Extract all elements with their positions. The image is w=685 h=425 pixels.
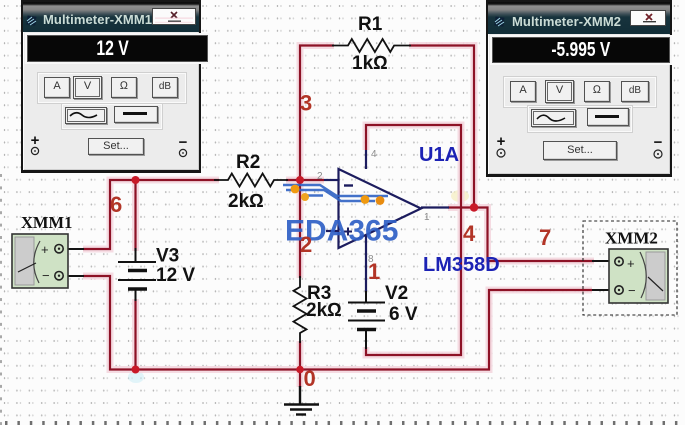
svg-text:6: 6	[110, 192, 122, 217]
svg-text:V2: V2	[385, 283, 408, 304]
svg-text:1: 1	[424, 212, 430, 223]
wire XMM1 minus to ground rail, bottom rail, up to XMM2 minus	[83, 276, 592, 370]
svg-text:2kΩ: 2kΩ	[228, 191, 264, 212]
svg-text:7: 7	[539, 225, 551, 250]
svg-text:2: 2	[300, 232, 312, 257]
wire R2 right to op-amp	[286, 179, 324, 181]
svg-text:2: 2	[317, 171, 323, 182]
XMM2 terminal stubs	[592, 261, 615, 290]
svg-text:+: +	[627, 256, 635, 271]
wire V3 bottom stub	[134, 299, 136, 370]
XMM2 selection box	[583, 221, 677, 315]
resistor R3	[294, 276, 307, 343]
battery V2	[348, 290, 385, 349]
EDA365 watermark dots	[291, 185, 385, 205]
wire V3 top stub	[134, 180, 136, 251]
svg-text:R2: R2	[236, 152, 260, 173]
Multimeter-XMM2 window	[486, 0, 672, 177]
wire halo glow (decorative duplicate of wires)	[83, 46, 594, 388]
svg-text:R1: R1	[358, 14, 383, 35]
junction node 6	[132, 176, 140, 184]
svg-text:U1A: U1A	[419, 144, 459, 166]
wire R3 bottom to node 0	[299, 341, 301, 370]
svg-text:6 V: 6 V	[389, 304, 418, 325]
junction net 2/3	[296, 176, 304, 184]
wire net 2 vertical to R3	[299, 180, 301, 278]
svg-text:+: +	[41, 242, 49, 257]
svg-text:XMM2: XMM2	[605, 229, 658, 248]
XMM1 instrument symbol	[12, 234, 68, 288]
svg-text:3: 3	[300, 91, 312, 116]
wire feedback net 3 left and top through R1	[300, 46, 334, 181]
jpeg tint blob	[128, 371, 144, 383]
svg-text:V3: V3	[156, 246, 179, 267]
svg-text:1: 1	[368, 259, 380, 284]
svg-text:4: 4	[463, 221, 476, 246]
svg-text:12 V: 12 V	[156, 265, 195, 286]
EDA365 watermark swoosh	[283, 185, 388, 201]
junction V3 bottom	[132, 366, 140, 374]
wire supply net 4 loop	[366, 125, 461, 355]
wire node 0 to ground	[299, 370, 301, 388]
svg-text:LM358D: LM358D	[423, 254, 500, 276]
svg-text:−: −	[628, 283, 636, 298]
XMM2 instrument symbol	[609, 249, 668, 303]
wire XMM1 plus to node 6	[83, 180, 219, 249]
svg-text:1kΩ: 1kΩ	[352, 53, 388, 74]
XMM1 terminal stubs	[64, 249, 84, 276]
svg-text:−: −	[42, 268, 50, 283]
svg-text:2kΩ: 2kΩ	[306, 300, 342, 321]
pin numbers	[317, 149, 430, 265]
junction node 0	[296, 366, 304, 374]
op-amp U1A	[324, 150, 449, 291]
junction output node 4	[470, 203, 478, 211]
Multimeter-XMM1 window	[21, 0, 201, 173]
battery V3	[118, 248, 156, 301]
resistor R2	[214, 174, 288, 187]
svg-text:0: 0	[304, 366, 316, 391]
jpeg tint blob	[451, 190, 469, 202]
wire R1 right to output node	[409, 46, 474, 208]
svg-text:XMM1: XMM1	[21, 213, 72, 232]
resistor R1	[332, 39, 411, 52]
wire output to node 4 and XMM2 plus	[448, 208, 594, 262]
ground	[284, 386, 319, 415]
svg-text:4: 4	[371, 149, 377, 160]
